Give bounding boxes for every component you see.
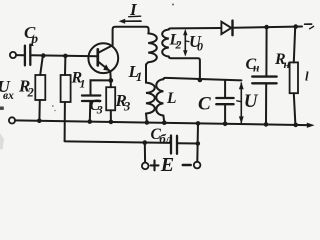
transistor VT1 emitter stroke	[99, 62, 111, 72]
capacitor C3 plate bottom	[82, 100, 100, 102]
inductor L1 winding	[146, 33, 157, 113]
node minus-rail	[196, 121, 201, 126]
svg-text:н: н	[284, 59, 291, 71]
resistor R1	[61, 75, 71, 102]
node R1-top	[63, 54, 68, 59]
node tank-top	[198, 78, 203, 83]
wire base line	[31, 54, 97, 57]
capacitor Cp plate 1	[24, 46, 26, 66]
svg-text:1: 1	[80, 77, 86, 91]
svg-text:p: p	[30, 31, 38, 46]
voltage arrow U tank	[237, 82, 244, 124]
voltage arrow U0	[183, 29, 189, 57]
paper specks	[0, 4, 174, 151]
wire R3 top lead	[110, 82, 112, 87]
wire L2 bottom lead down to tank	[169, 57, 200, 80]
wire minus lead rail to terminal	[196, 123, 199, 162]
output top-right dash	[305, 23, 312, 25]
wire RH top lead	[294, 27, 295, 63]
node C-bottom	[223, 122, 228, 127]
node R3-bottom	[109, 120, 114, 125]
node R2-top	[41, 53, 46, 58]
wire L2 top lead to diode	[169, 28, 222, 30]
capacitor CH plate top	[252, 75, 276, 77]
node RH-bottom	[293, 123, 298, 128]
svg-text:l: l	[305, 69, 309, 84]
wire R2 top lead	[40, 56, 43, 75]
svg-text:L: L	[166, 90, 176, 107]
wire supply rail from R1 to Cbl	[65, 141, 170, 143]
wire R2 bottom lead	[38, 100, 40, 121]
node emitter	[108, 78, 113, 83]
node L-bottom	[162, 120, 167, 125]
output top-right tick	[310, 26, 314, 28]
wire R1 bottom lead crossing lower rail to +E rail	[64, 102, 66, 141]
capacitor CH plate bottom	[252, 82, 276, 84]
wire input to Cp	[16, 54, 24, 56]
label plus	[151, 160, 159, 170]
current arrow I	[119, 19, 141, 24]
svg-text:вх: вх	[3, 90, 14, 102]
wire L top lead / tank top rail	[163, 78, 241, 81]
wire CH bottom lead	[265, 84, 267, 124]
resistor R2	[35, 75, 45, 100]
transistor VT1 collector stroke	[99, 45, 113, 52]
capacitor C plate top	[216, 97, 233, 99]
node C3-bottom	[88, 119, 93, 124]
node plus-lead	[143, 140, 148, 145]
wire RH bottom lead	[294, 93, 296, 125]
label I underline	[129, 15, 141, 18]
wire plus lead	[144, 143, 146, 163]
wire CH top lead	[265, 27, 267, 75]
svg-text:н: н	[253, 63, 260, 75]
capacitor Cbl plate 1	[170, 136, 172, 154]
capacitor Cp plate 2	[29, 45, 31, 65]
svg-text:0: 0	[197, 40, 203, 54]
transistor VT1 base bar	[96, 49, 99, 65]
diode VD1	[221, 21, 232, 36]
node L1-bottom	[145, 120, 150, 125]
inductor L tank winding	[156, 79, 163, 115]
svg-text:3: 3	[123, 100, 130, 114]
wire lower rail	[15, 120, 307, 125]
capacitor C plate bottom	[216, 103, 233, 105]
capacitor C3 plate top	[82, 94, 100, 96]
svg-text:бл: бл	[159, 131, 172, 146]
wire L1 bottom lead	[145, 114, 148, 123]
wire C bottom lead	[224, 105, 226, 124]
node CH-top	[264, 25, 269, 30]
wire R3 bottom lead	[110, 110, 112, 122]
terminal minus	[194, 162, 201, 169]
terminal input bottom	[9, 117, 15, 123]
terminal plus	[142, 163, 149, 170]
capacitor Cbl plate 2	[176, 136, 178, 154]
inductor L2 winding	[162, 30, 169, 57]
resistor RH	[290, 62, 298, 93]
wire R1 top lead	[64, 56, 66, 75]
transistor VT1 emitter arrowhead	[103, 64, 110, 71]
wire diode to output top	[234, 27, 302, 28]
svg-text:E: E	[160, 154, 174, 176]
wire collector lead and top wire to L1	[113, 27, 149, 46]
node RH-top	[293, 24, 298, 29]
node CH-bottom	[264, 122, 269, 127]
wire emitter to node	[109, 71, 112, 80]
node R2-bottom	[37, 119, 42, 124]
lower rail arrowhead	[307, 123, 315, 128]
svg-text:C: C	[198, 94, 211, 115]
resistor R3	[106, 87, 115, 110]
svg-text:2: 2	[175, 38, 182, 52]
terminal input top	[10, 52, 16, 58]
svg-text:U: U	[244, 91, 259, 112]
svg-text:1: 1	[136, 70, 142, 84]
node Cbl-right	[196, 141, 201, 146]
label minus	[183, 164, 191, 167]
svg-text:3: 3	[96, 102, 103, 116]
wire C3 bottom lead	[89, 102, 92, 122]
wire C top lead	[224, 80, 226, 97]
paper background	[0, 0, 315, 182]
transistor VT1 circle	[88, 43, 118, 73]
wire Cbl to minus node	[178, 142, 198, 144]
svg-text:2: 2	[27, 86, 34, 100]
wire emitter node to C3	[91, 80, 111, 94]
wire L bottom lead	[162, 116, 165, 123]
